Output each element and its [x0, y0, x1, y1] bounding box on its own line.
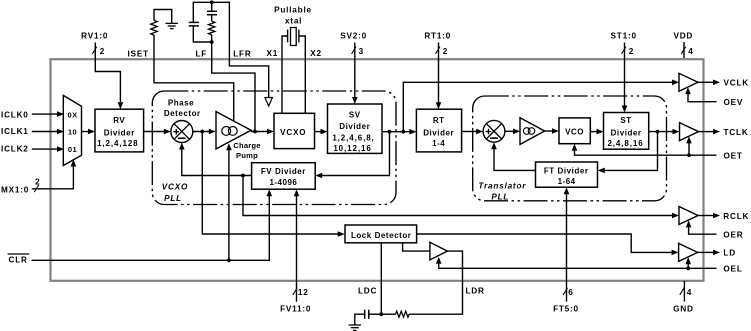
junction LF node: [210, 40, 214, 44]
svg-text:VCLK: VCLK: [724, 79, 750, 88]
RT Divider block: [416, 109, 461, 152]
svg-text:Phase: Phase: [168, 99, 194, 108]
ground (ISET resistor): [166, 22, 178, 24]
wire LD output: [698, 251, 714, 253]
wire SV output up to VCLK buffer: [403, 82, 672, 131]
Lock Detector block: [345, 225, 417, 243]
svg-text:Charge: Charge: [233, 141, 260, 150]
pin OET wire to VCO gate: [575, 150, 717, 155]
svg-text:10: 10: [68, 128, 77, 137]
svg-text:RV: RV: [113, 116, 125, 125]
junction charge pump output / LF: [253, 130, 257, 134]
FT Divider block: [536, 162, 598, 187]
wire ICLK1 to mux: [32, 131, 58, 133]
wire ST divider output to TCLK buffer: [649, 131, 673, 133]
junction PD1 output: [200, 130, 204, 134]
junction LDC node: [379, 312, 383, 316]
svg-text:2,4,8,16: 2,4,8,16: [607, 139, 643, 148]
wire RV divider to phase detector: [144, 131, 165, 133]
svg-text:1,2,4,6,8,: 1,2,4,6,8,: [332, 134, 374, 143]
svg-text:2: 2: [629, 47, 634, 56]
svg-text:LFR: LFR: [233, 49, 251, 58]
wire FT divider output to PD2 feedback: [494, 149, 536, 170]
wire amplifier to VCO: [545, 130, 553, 132]
input mux: [63, 95, 81, 165]
VCXO PLL dash-dot boundary: [152, 91, 396, 205]
svg-text:Detector: Detector: [164, 109, 201, 118]
svg-text:ISET: ISET: [127, 50, 148, 59]
junction CLR branch: [227, 258, 231, 262]
svg-text:SV2:0: SV2:0: [340, 31, 367, 40]
svg-text:PLL: PLL: [164, 194, 182, 203]
LD output buffer: [679, 243, 698, 261]
svg-text:1-4096: 1-4096: [269, 178, 297, 187]
svg-text:VCXO: VCXO: [280, 128, 306, 137]
svg-text:OER: OER: [723, 231, 743, 240]
wire ST1:0 to ST divider: [624, 43, 626, 106]
svg-text:1,2,4,128: 1,2,4,128: [97, 139, 138, 148]
wire X2 to VCXO: [299, 36, 305, 113]
svg-text:01: 01: [68, 145, 77, 154]
wire LDC cap to ground: [355, 314, 365, 324]
wire RT1:0 to RT divider: [438, 43, 440, 103]
svg-text:ST1:0: ST1:0: [611, 31, 637, 40]
pin OEV wire: [688, 94, 717, 102]
VCXO block: [274, 113, 315, 148]
wire SV2:0 to SV divider: [354, 43, 356, 98]
wire X1 to VCXO: [282, 36, 288, 113]
svg-text:LDC: LDC: [358, 287, 377, 296]
svg-text:ST: ST: [620, 116, 631, 125]
junction FV output to RCLK path: [241, 174, 245, 178]
svg-text:LDR: LDR: [465, 287, 484, 296]
svg-text:OET: OET: [724, 152, 743, 161]
svg-text:Divider: Divider: [423, 129, 454, 138]
svg-text:FV11:0: FV11:0: [280, 304, 311, 313]
phase detector 1 (mixer symbol): [171, 121, 193, 143]
TCLK output buffer: [680, 123, 699, 141]
wire VDD to chip: [683, 42, 685, 58]
wire OEL riser to LD buffer: [687, 264, 689, 269]
wire RT divider output to phase detector 2: [462, 131, 477, 133]
svg-text:VDD: VDD: [673, 31, 693, 40]
loop filter top wire (to LFR): [193, 2, 229, 59]
RV Divider block: [95, 109, 144, 152]
svg-text:FT5:0: FT5:0: [553, 304, 579, 313]
wire ICLK0 to mux: [32, 113, 58, 115]
capacitor on LDC (external): [364, 310, 366, 319]
svg-text:MX1:0: MX1:0: [1, 186, 29, 195]
svg-text:VCXO: VCXO: [162, 182, 188, 191]
wire ISET into chip to charge pump bias: [154, 35, 234, 121]
SV Divider block: [328, 104, 383, 153]
wire MX1:0 to mux select: [32, 166, 74, 189]
chip boundary: [51, 59, 704, 281]
wire SV output down to FV divider input: [322, 132, 390, 176]
svg-text:Divider: Divider: [339, 122, 370, 131]
wire lock detector output to LD buffer: [417, 234, 672, 252]
wire TCLK output: [699, 131, 714, 133]
svg-text:ICLK0: ICLK0: [1, 110, 29, 119]
svg-text:0X: 0X: [68, 110, 78, 119]
pin OER wire: [689, 227, 717, 234]
wire VCLK output: [698, 81, 714, 83]
VCO block: [559, 118, 590, 144]
wire PD2 to loop amplifier: [505, 130, 514, 132]
svg-text:Pullable: Pullable: [274, 5, 312, 14]
svg-text:RT: RT: [433, 116, 445, 125]
svg-text:Pump: Pump: [236, 151, 258, 160]
svg-text:12: 12: [298, 288, 309, 297]
svg-text:ICLK2: ICLK2: [1, 145, 29, 154]
wire LF pin into chip to charge pump output node: [212, 42, 255, 132]
resistor on ISET pin: [151, 20, 157, 35]
wire ISET resistor to ground: [154, 10, 172, 24]
svg-text:RCLK: RCLK: [723, 212, 749, 221]
wire mux output to RV divider: [82, 131, 90, 133]
junction ST output to FT feedback: [656, 130, 660, 134]
RCLK output buffer: [679, 207, 698, 225]
svg-text:OEL: OEL: [723, 265, 742, 274]
svg-text:SV: SV: [349, 111, 361, 120]
resistor R (loop filter series): [211, 15, 213, 22]
svg-text:FV Divider: FV Divider: [261, 167, 306, 176]
svg-text:ICLK1: ICLK1: [1, 127, 29, 136]
svg-text:X2: X2: [310, 49, 322, 58]
FV Divider block: [252, 163, 316, 190]
wire FV11:0 to FV divider: [296, 196, 298, 302]
LDR sense buffer triangle: [430, 242, 448, 260]
junction SV output to VCLK path: [401, 130, 405, 134]
wire lock detector to LDC pin: [380, 243, 382, 314]
wire cap to LDC node: [369, 313, 382, 315]
svg-text:4: 4: [688, 47, 693, 56]
svg-text:LD: LD: [723, 249, 736, 258]
junction OEL riser: [686, 266, 690, 270]
svg-text:CLR: CLR: [9, 256, 28, 265]
svg-text:LF: LF: [195, 49, 207, 58]
wire FV divider output to phase detector 1 feedback: [182, 150, 252, 176]
svg-text:PLL: PLL: [491, 193, 509, 202]
capacitor C1 (loop filter parallel): [189, 21, 199, 23]
wire FT5:0 to FT divider: [566, 194, 568, 301]
wire C1 bottom to LF node: [193, 26, 211, 42]
wire PD1 output down to lock detector input: [202, 132, 338, 235]
wire OET riser to TCLK buffer: [688, 143, 690, 155]
svg-text:TCLK: TCLK: [724, 128, 749, 137]
pullable crystal: [291, 28, 297, 46]
svg-text:RT1:0: RT1:0: [424, 31, 451, 40]
svg-text:X1: X1: [266, 49, 278, 58]
svg-text:3: 3: [359, 47, 364, 56]
svg-text:RV1:0: RV1:0: [81, 32, 108, 41]
wire phase detector 1 output with tap to lock detector: [193, 131, 209, 133]
svg-text:VCO: VCO: [565, 127, 584, 136]
svg-text:GND: GND: [673, 304, 694, 313]
wire buffer output to LDR pin: [409, 251, 462, 314]
svg-text:FT Divider: FT Divider: [544, 166, 589, 175]
wire GND to chip: [683, 281, 685, 302]
wire lock detector to LDR sense buffer: [403, 243, 430, 251]
svg-text:Translator: Translator: [478, 182, 526, 191]
pin OEL wire: [439, 263, 717, 268]
junction SV output to FV feedback: [388, 130, 392, 134]
svg-text:xtal: xtal: [285, 16, 302, 25]
wire ICLK2 to mux: [32, 148, 58, 150]
wire ST output down to FT divider input: [604, 132, 657, 171]
charge pump amplifier triangle: [216, 112, 251, 149]
wire SV divider output to RT divider: [382, 131, 410, 133]
wire CLR to charge pump reset: [228, 150, 230, 260]
VCLK output buffer: [679, 73, 698, 91]
svg-text:Divider: Divider: [611, 129, 642, 138]
phase detector 2 (mixer symbol): [483, 120, 505, 142]
svg-text:4: 4: [687, 288, 692, 297]
resistor LDC-LDR (external): [381, 313, 395, 315]
svg-text:1-64: 1-64: [558, 177, 576, 186]
junction OET riser: [687, 153, 691, 157]
wire charge pump output to VCXO: [251, 131, 268, 133]
ground (LDC filter): [349, 324, 361, 326]
Translator PLL dash-dot boundary: [473, 96, 667, 201]
svg-text:2: 2: [443, 47, 448, 56]
wire VCO to ST divider: [590, 131, 597, 133]
wire RCLK output: [698, 215, 714, 217]
junction loop filter top: [210, 0, 214, 4]
svg-text:Lock Detector: Lock Detector: [351, 231, 412, 240]
svg-text:6: 6: [568, 288, 573, 297]
wire CLR input: [32, 196, 270, 260]
wire LFR pin into chip to VCXO control (open arrow): [229, 59, 268, 97]
ST Divider block: [604, 113, 649, 150]
capacitor C2 (loop filter series): [211, 2, 213, 11]
svg-text:1-4: 1-4: [432, 139, 445, 148]
svg-text:OEV: OEV: [724, 98, 744, 107]
wire FV output down to RCLK buffer: [243, 176, 673, 216]
svg-text:2: 2: [100, 47, 105, 56]
wire RV1:0 to RV divider: [95, 43, 120, 103]
svg-text:Divider: Divider: [104, 129, 135, 138]
svg-text:2: 2: [35, 177, 40, 186]
loop amplifier triangle (translator): [520, 118, 545, 145]
wire VCXO output to SV divider: [315, 131, 322, 133]
svg-text:10,12,16: 10,12,16: [333, 144, 371, 153]
